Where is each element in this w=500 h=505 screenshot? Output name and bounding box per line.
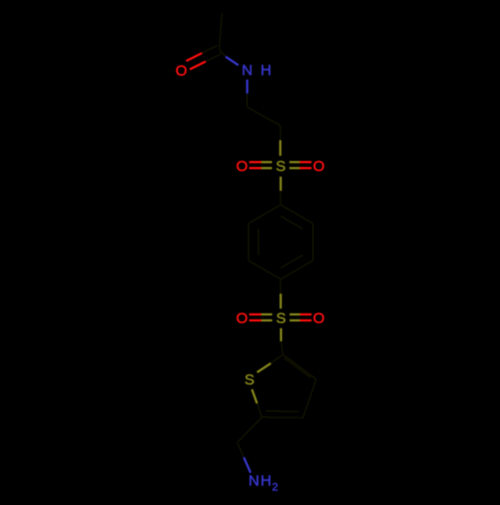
bond N-CH2 (246, 80, 248, 108)
atom S1 sulfonyl (276, 158, 286, 175)
atom N-H2 amine (248, 473, 278, 494)
svg-text:O: O (313, 310, 325, 327)
bond S-C2 thiophene (252, 389, 262, 417)
benzene ring C1-C6 (249, 205, 313, 279)
svg-text:S: S (276, 158, 286, 175)
svg-text:O: O (175, 62, 187, 79)
bond C-N amide (219, 50, 238, 66)
bond S1-C1 benzene (280, 177, 282, 205)
atom O right of S1 (313, 158, 325, 175)
atom O left of S1 (236, 158, 248, 175)
svg-text:H: H (260, 62, 271, 79)
svg-text:H: H (260, 473, 271, 490)
double bond S2=O left (249, 314, 272, 320)
svg-text:N: N (248, 473, 259, 490)
svg-text:O: O (236, 158, 248, 175)
double bond C=O carbonyl (186, 45, 221, 69)
atom O right of S2 (313, 310, 325, 327)
bond S2-C5 thiophene (281, 328, 283, 354)
svg-text:2: 2 (272, 481, 278, 493)
bond CH2-CH2 (247, 107, 280, 125)
atom O left of S2 (236, 310, 248, 327)
double bond S1=O left (249, 162, 272, 168)
svg-text:N: N (242, 62, 253, 79)
svg-text:O: O (236, 310, 248, 327)
bond C2-CH2 (237, 417, 262, 442)
atom S thiophene (244, 371, 254, 388)
svg-text:S: S (244, 371, 254, 388)
bond CH2-NH2 (237, 442, 250, 472)
atom N-H amide (242, 62, 272, 79)
bond C5-S thiophene (257, 355, 283, 373)
svg-text:S: S (276, 310, 286, 327)
atom O carbonyl (175, 62, 187, 79)
thiophene ring carbons (262, 355, 316, 418)
double bond S1=O right (289, 162, 311, 168)
atom S2 sulfonyl (276, 310, 286, 327)
bond CH2-S1 (279, 126, 281, 156)
bond C4-S2 (280, 279, 282, 308)
bond CH3-C (methyl to carbonyl carbon) (219, 13, 222, 50)
svg-text:O: O (313, 158, 325, 175)
double bond S2=O right (290, 314, 312, 320)
